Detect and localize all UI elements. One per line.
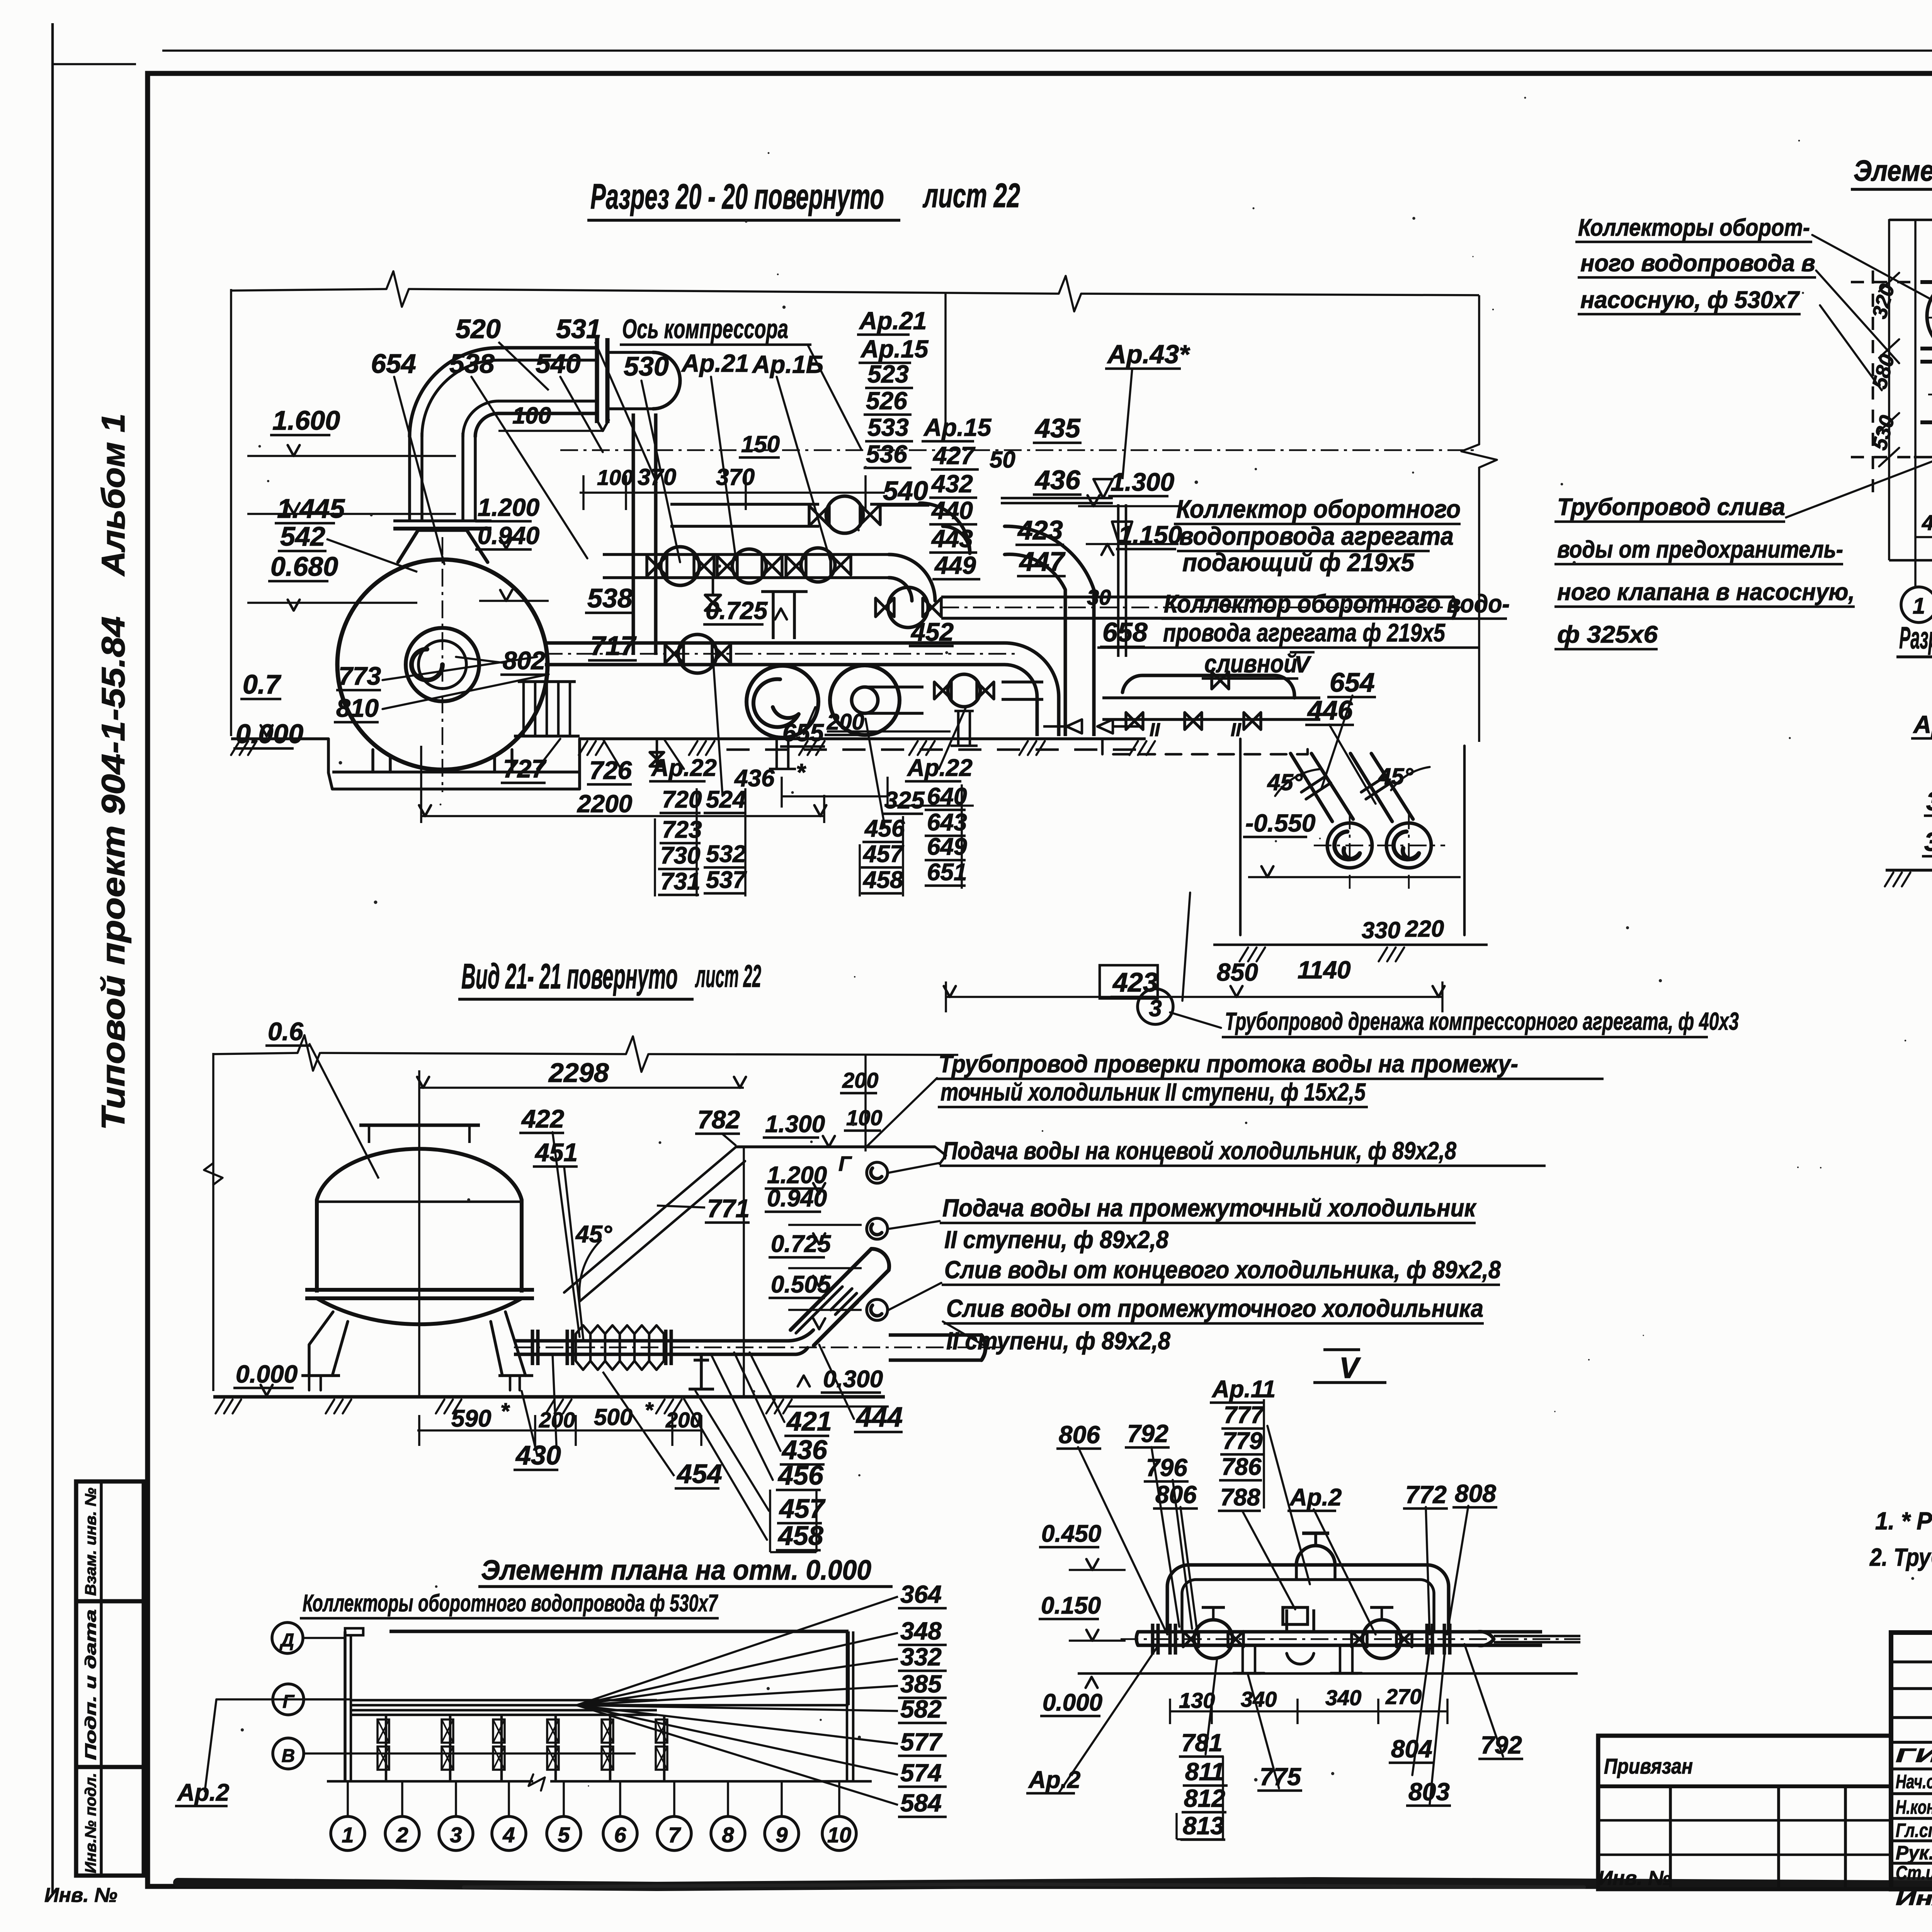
svg-text:812: 812 [1184, 1784, 1225, 1812]
sheet edge line top-left [53, 63, 136, 65]
svg-text:Коллектор оборотного: Коллектор оборотного [1176, 495, 1461, 523]
vessel waterline [317, 1201, 522, 1203]
inclined pipe top cap [871, 1249, 889, 1270]
svg-text:526: 526 [866, 387, 907, 415]
row1 right elbow [920, 503, 970, 553]
svg-text:0.000: 0.000 [236, 1360, 298, 1388]
break mark right envelope [1461, 444, 1497, 468]
svg-text:10: 10 [827, 1823, 851, 1847]
tank big circle [337, 560, 548, 770]
column lines and hatched pads [385, 1715, 388, 1781]
plan top pipe line [389, 1630, 849, 1633]
svg-text:Разрез 27-27 повернуто: Разрез 27-27 повернуто [1899, 621, 1932, 655]
svg-text:Ар.2: Ар.2 [177, 1779, 229, 1806]
svg-text:1.200: 1.200 [767, 1162, 827, 1189]
svg-text:-0.550: -0.550 [1245, 809, 1315, 837]
drain inclined pipe 2 45deg [1350, 753, 1413, 821]
svg-text:1.445: 1.445 [277, 493, 345, 524]
svg-text:45°: 45° [1267, 769, 1303, 795]
pump circle 2 [830, 665, 900, 735]
svg-text:0.6: 0.6 [268, 1017, 304, 1046]
title block outer [1891, 1633, 1932, 1889]
45 deg arc mark v21 [579, 1240, 601, 1298]
circled 1 [1901, 587, 1932, 622]
svg-text:804: 804 [1391, 1735, 1432, 1763]
svg-text:Коллекторы оборотного водопр: Коллекторы оборотного водопровода ф 530х… [303, 1590, 718, 1617]
envelope break mark left [386, 271, 409, 307]
vertical twin pipe to lower manifold [632, 413, 635, 655]
plan2 dashed wall opening [1872, 270, 1874, 498]
thin vertical pipe with funnel [1117, 504, 1120, 657]
lower right vertical pipe [1036, 697, 1039, 736]
svg-text:456: 456 [777, 1460, 824, 1490]
hatch pit drain [1240, 947, 1404, 961]
support stands V [1233, 1645, 1264, 1673]
svg-text:806: 806 [1059, 1421, 1100, 1449]
arc marks 45 [1275, 769, 1321, 796]
svg-text:4: 4 [502, 1823, 515, 1847]
svg-text:Нач.отд.: Нач.отд. [1896, 1771, 1932, 1793]
plan2 bottom step [1914, 456, 1932, 459]
svg-text:*: * [796, 759, 806, 786]
valve V2 row2 [717, 556, 737, 576]
svg-text:Подача воды на промежуточны: Подача воды на промежуточный холодильник [942, 1194, 1477, 1222]
svg-text:II ступени, ф 89х2,8: II ступени, ф 89х2,8 [946, 1327, 1170, 1355]
svg-text:0.000: 0.000 [1043, 1689, 1102, 1716]
svg-text:523: 523 [867, 360, 909, 388]
svg-text:1: 1 [1913, 594, 1925, 619]
svg-text:6: 6 [614, 1823, 626, 1847]
svg-text:364: 364 [900, 1580, 942, 1608]
svg-text:531: 531 [556, 314, 601, 344]
leader 654 446 [1321, 696, 1376, 804]
svg-text:813: 813 [1183, 1812, 1224, 1840]
svg-text:730: 730 [660, 842, 700, 869]
svg-text:400: 400 [1922, 510, 1932, 535]
svg-text:1.300: 1.300 [765, 1111, 825, 1138]
scan speckles [1798, 140, 1800, 142]
svg-text:436: 436 [1034, 465, 1081, 495]
plan2 pipe band1 [1920, 280, 1932, 284]
svg-text:насосную, ф 530х7: насосную, ф 530х7 [1580, 287, 1800, 313]
svg-text:808: 808 [1455, 1480, 1496, 1507]
svg-text:542: 542 [280, 521, 325, 551]
svg-text:540: 540 [883, 476, 928, 506]
fan leader lines to right labels [577, 1597, 898, 1705]
svg-text:0.940: 0.940 [767, 1185, 827, 1212]
ground line s20 [231, 737, 328, 740]
elev arrow 0.000 s20 [261, 725, 273, 736]
svg-text:V: V [1339, 1352, 1361, 1384]
svg-text:358: 358 [1926, 787, 1932, 816]
foundation pad tank [332, 770, 580, 774]
svg-text:лист 22: лист 22 [695, 959, 761, 994]
svg-text:850: 850 [1217, 958, 1258, 986]
envelope right vertical [1478, 295, 1480, 444]
svg-text:440: 440 [931, 497, 973, 524]
svg-text:421: 421 [786, 1406, 832, 1436]
row circle Д [272, 1622, 303, 1653]
svg-text:Трубопровод дренажа компресс: Трубопровод дренажа компрессорного агрег… [1225, 1007, 1739, 1035]
leader to drain text [1170, 893, 1221, 1028]
valve circle 2 V [1362, 1620, 1401, 1658]
leader fan bottom labels [537, 657, 966, 827]
vessel feet [301, 1374, 340, 1377]
svg-text:ф 325х6: ф 325х6 [1557, 621, 1658, 648]
leader Ар.2 plan [205, 1699, 345, 1791]
svg-text:0.725: 0.725 [771, 1231, 832, 1257]
thin pipe 771 45deg [564, 1147, 745, 1301]
plan2 pipe band2 [1920, 360, 1932, 364]
right cap V [1478, 1631, 1494, 1645]
horizontal end pipe with cap v21 [889, 1333, 981, 1337]
leader 520 [498, 342, 549, 390]
svg-text:ного клапана в насосную,: ного клапана в насосную, [1557, 579, 1855, 605]
svg-text:520: 520 [456, 314, 501, 344]
boxes 456-458 v21 [769, 1490, 771, 1552]
plan bottom line [327, 1780, 533, 1783]
svg-text:458: 458 [862, 867, 903, 893]
vessel legs [309, 1312, 526, 1376]
svg-text:792: 792 [1481, 1731, 1522, 1759]
bottom smear line thick [178, 1880, 1932, 1886]
svg-text:786: 786 [1221, 1454, 1262, 1480]
svg-text:0.680: 0.680 [270, 551, 338, 582]
tank top cone [398, 530, 488, 562]
svg-text:130: 130 [1179, 1688, 1215, 1713]
svg-text:532: 532 [706, 841, 746, 867]
svg-text:2: 2 [396, 1823, 408, 1847]
svg-text:Элемент плана на отм. 0.000: Элемент плана на отм. 0.000 [481, 1555, 871, 1586]
inclined pipe 444 [791, 1249, 889, 1345]
svg-text:574: 574 [900, 1759, 942, 1787]
svg-text:1: 1 [342, 1823, 354, 1847]
svg-text:772: 772 [1405, 1481, 1447, 1509]
svg-text:Д: Д [279, 1630, 294, 1651]
svg-text:427: 427 [932, 442, 976, 469]
svg-text:Гл.спец.: Гл.спец. [1896, 1820, 1932, 1841]
svg-text:II ступени, ф 89х2,8: II ступени, ф 89х2,8 [944, 1226, 1168, 1253]
elev arrow 0.680 [288, 600, 300, 611]
svg-text:1.200: 1.200 [478, 493, 539, 521]
svg-text:Ар.43*: Ар.43* [1107, 340, 1190, 369]
svg-text:2200: 2200 [577, 790, 632, 818]
upper pipe flange [595, 338, 599, 423]
svg-text:лист 22: лист 22 [922, 176, 1020, 214]
thin pipe Ар.43 with valve [1001, 497, 1113, 500]
sheet edge line left [51, 23, 54, 1893]
upper pipe continuation and cap [607, 351, 653, 354]
drain outlet curl circles [1327, 823, 1372, 868]
plan2 left dim vertical [1888, 219, 1890, 560]
svg-text:582: 582 [900, 1695, 942, 1723]
svg-text:0.7: 0.7 [243, 669, 281, 699]
svg-text:773: 773 [338, 662, 381, 690]
svg-text:654: 654 [371, 349, 416, 379]
svg-text:провода агрегата ф 219х5: провода агрегата ф 219х5 [1163, 618, 1446, 647]
pipe elbow to inclined v21 [734, 1330, 813, 1341]
svg-text:точный холодильник II ступен: точный холодильник II ступени, ф 15х2,5 [940, 1078, 1366, 1106]
svg-text:Коллекторы оборот-: Коллекторы оборот- [1578, 214, 1810, 241]
elev arrow 1.600 [288, 445, 300, 456]
svg-text:Ар.21: Ар.21 [859, 307, 927, 335]
small fitting symbols right of pump [1066, 719, 1082, 733]
svg-text:590: 590 [451, 1405, 491, 1432]
V loop pipe outer [1167, 1565, 1449, 1631]
inclined pipe flanges [831, 1289, 857, 1315]
svg-text:782: 782 [697, 1105, 740, 1134]
svg-text:Типовой проект 904-1-55.84: Типовой проект 904-1-55.84 [95, 616, 131, 1130]
signature row lines [1891, 1767, 1932, 1770]
svg-text:0.150: 0.150 [1041, 1592, 1101, 1619]
valve V1 row2 [647, 556, 667, 576]
svg-text:Ар.1Б: Ар.1Б [752, 350, 823, 378]
svg-text:Ар.15: Ар.15 [860, 335, 929, 363]
leaders from v21 texts [866, 1078, 989, 1349]
left end fitting V [1136, 1632, 1138, 1645]
box lines around stacks 720-731 [696, 788, 698, 896]
svg-text:781: 781 [1181, 1729, 1223, 1757]
plan2 grid vertical [1914, 220, 1917, 587]
svg-text:533: 533 [867, 413, 909, 441]
flange pair 2 v21 [664, 1330, 668, 1365]
tank inner spiral [406, 628, 479, 701]
svg-text:731: 731 [660, 868, 700, 895]
svg-text:Трубопровод проверки протока: Трубопровод проверки протока воды на про… [939, 1050, 1518, 1078]
svg-text:Инв. №: Инв. № [44, 1884, 117, 1906]
svg-text:*: * [645, 1398, 654, 1422]
dimension envelope top line [231, 289, 386, 291]
svg-text:Ар.15: Ар.15 [923, 413, 992, 441]
thin pipe at elevation 1.300 [736, 1145, 935, 1148]
bypass lower line valves [1126, 713, 1143, 730]
svg-text:792: 792 [1127, 1420, 1168, 1447]
box stack 777-788 [1263, 1399, 1265, 1509]
ground hatch s20 [231, 741, 257, 755]
V loop pipe inner [1182, 1580, 1434, 1631]
svg-text:423: 423 [1112, 967, 1158, 997]
pump outlet pipe right [1002, 680, 1043, 684]
svg-text:385: 385 [900, 1670, 942, 1698]
svg-text:2. Трубопроводы дренажа: 2. Трубопроводы дренажа проложить по мес… [1869, 1543, 1932, 1571]
plan top right corner down [847, 1631, 850, 1705]
support stand right [954, 710, 974, 713]
svg-text:Привязан: Привязан [1604, 1754, 1693, 1778]
leader bundle from top labels [394, 377, 831, 564]
arrow 0.940 [500, 590, 512, 601]
drain pipe 1 flange [1301, 776, 1331, 799]
svg-text:II: II [1231, 720, 1242, 740]
svg-text:Инв.№ подл.: Инв.№ подл. [82, 1773, 99, 1873]
valve top row1 [826, 496, 863, 533]
row line Д [303, 1637, 345, 1639]
row2 right elbow down [889, 554, 935, 601]
centerline ось компрессора [560, 449, 1479, 451]
svg-text:332: 332 [1924, 827, 1932, 857]
svg-text:446: 446 [1307, 695, 1353, 725]
svg-text:*: * [500, 1399, 510, 1424]
plan2 top boundary [1889, 219, 1932, 221]
svg-text:Ось компрессора: Ось компрессора [622, 314, 788, 344]
valve V3 row2 [786, 556, 806, 576]
upper pipe bundle horizontal [498, 346, 597, 350]
envelope left vertical [230, 289, 232, 736]
vessel bottom dish [317, 1298, 522, 1324]
plan break mark bottom [529, 1774, 545, 1791]
svg-text:Н.контр.: Н.контр. [1896, 1796, 1932, 1818]
vessel body sides [315, 1200, 319, 1293]
arrow 0.725 [775, 609, 787, 619]
svg-text:1.300: 1.300 [1111, 468, 1174, 496]
svg-text:Г: Г [838, 1152, 852, 1175]
svg-text:771: 771 [707, 1194, 750, 1223]
pipe support stand v21 [700, 1354, 703, 1389]
row circle Г [273, 1684, 304, 1715]
svg-text:538: 538 [587, 583, 633, 613]
svg-text:536: 536 [866, 440, 907, 468]
svg-text:Подп. и дата: Подп. и дата [82, 1609, 99, 1760]
svg-text:457: 457 [779, 1493, 826, 1524]
circled 3 [1138, 989, 1173, 1024]
envelope v21 top line [213, 1053, 298, 1054]
svg-text:779: 779 [1223, 1428, 1263, 1454]
envelope v21 left vertical [212, 1053, 214, 1391]
leader 782 [723, 1134, 736, 1146]
svg-text:270: 270 [1385, 1684, 1422, 1709]
vertical big riser to bypass [1064, 590, 1067, 736]
flange pair right V [1425, 1624, 1429, 1655]
leader fan v21 labels [684, 1345, 854, 1540]
svg-text:150: 150 [741, 431, 780, 457]
plan top band wall stub [345, 1628, 363, 1635]
svg-text:444: 444 [855, 1402, 903, 1433]
row3 valve assembly [876, 598, 894, 617]
leaders left text plan2 [1812, 235, 1932, 390]
tank upper elbow outer [410, 348, 498, 437]
box line 640-651 [961, 784, 963, 889]
tee with actuator V [1285, 1609, 1288, 1632]
svg-text:Подача воды на концевой хо: Подача воды на концевой холодильник, ф 8… [942, 1137, 1456, 1165]
ground hatch s27 [1885, 872, 1910, 886]
svg-text:ГИП: ГИП [1896, 1745, 1932, 1766]
svg-text:Ар.11: Ар.11 [1211, 1376, 1276, 1403]
leader 802 810 [383, 657, 549, 709]
leader left text2 [1785, 448, 1932, 518]
row circle В [273, 1738, 304, 1769]
drain pipe 2 flange [1361, 776, 1391, 799]
svg-text:654: 654 [1330, 667, 1375, 697]
svg-text:370: 370 [716, 464, 755, 490]
ground line s27 [1886, 869, 1932, 872]
svg-text:Слив воды от промежуточного: Слив воды от промежуточного холодильника [946, 1294, 1483, 1322]
bypass below-ground dashed return [1102, 739, 1308, 754]
ground line v21 [213, 1395, 885, 1399]
svg-text:сливной: сливной [1204, 649, 1297, 678]
boxes 811-813 [1222, 1756, 1224, 1839]
привязан table grid [1669, 1786, 1672, 1889]
diag drain pipe to concevoy [796, 1287, 858, 1345]
svg-text:220: 220 [1405, 916, 1444, 942]
svg-text:449: 449 [934, 551, 976, 579]
leader 531 [595, 342, 657, 483]
svg-text:447: 447 [1019, 546, 1066, 577]
plan2 bottom boundary [1889, 559, 1932, 562]
pit outline drain [1240, 739, 1464, 935]
arrow 1.200 [500, 538, 512, 549]
pump circle 1 [747, 666, 818, 738]
svg-text:200: 200 [827, 709, 864, 735]
svg-text:Ст.инж.: Ст.инж. [1896, 1862, 1932, 1884]
svg-text:100: 100 [512, 403, 551, 429]
svg-text:3: 3 [450, 1823, 462, 1847]
svg-text:348: 348 [900, 1617, 942, 1645]
leader 771 [657, 1206, 705, 1207]
dim 436* line [782, 795, 888, 798]
vessel support ring [305, 1288, 534, 1292]
svg-text:8: 8 [722, 1823, 734, 1847]
vessel dome [317, 1149, 522, 1200]
leader Ар.43 [1122, 369, 1132, 479]
svg-text:330: 330 [1362, 917, 1400, 943]
manifold row2 pipe [603, 553, 889, 556]
svg-text:788: 788 [1220, 1484, 1260, 1511]
svg-text:775: 775 [1260, 1763, 1301, 1791]
svg-text:Рук.гр.: Рук.гр. [1896, 1842, 1932, 1864]
svg-text:1.600: 1.600 [272, 405, 340, 435]
main bottom run V [1138, 1630, 1542, 1634]
svg-text:332: 332 [900, 1643, 942, 1671]
svg-text:200: 200 [539, 1408, 575, 1432]
bypass loop rounded top [1122, 675, 1294, 698]
foundation pit s20 [328, 739, 580, 789]
dim line V [1170, 1710, 1447, 1713]
svg-text:2298: 2298 [548, 1058, 609, 1088]
envelope mid vertical [944, 294, 947, 425]
valve on top of loop [1296, 1546, 1335, 1565]
svg-text:Разрез 20 - 20 повернуто: Разрез 20 - 20 повернуто [590, 177, 884, 216]
riser top elbows [1005, 526, 1094, 590]
svg-text:658: 658 [1102, 617, 1148, 647]
plan right tall verticals [846, 1631, 849, 1782]
leader 0.6 [309, 1043, 379, 1179]
svg-text:200: 200 [842, 1068, 878, 1092]
leader 422 451 [553, 1132, 583, 1341]
vessel centerline [418, 1132, 420, 1387]
ground hatch v21 [216, 1400, 792, 1413]
svg-text:1140: 1140 [1298, 956, 1351, 984]
numbered column circles 1-10 [331, 1816, 365, 1850]
left stamp table [76, 1481, 144, 1876]
svg-text:0.450: 0.450 [1041, 1520, 1101, 1547]
leader 542 [327, 539, 417, 572]
lower manifold pipe [545, 641, 1005, 645]
elev arrow 1.445 [288, 503, 300, 514]
svg-text:100: 100 [597, 465, 633, 490]
plan G band pipes [351, 1699, 657, 1702]
svg-text:45°: 45° [575, 1221, 612, 1248]
elev arrow 1300 [1088, 495, 1100, 506]
svg-text:1. * Размеры для справок.: 1. * Размеры для справок. [1875, 1507, 1932, 1535]
leader 430 [522, 1354, 556, 1455]
tank legs [373, 750, 512, 772]
tank top flange plate [393, 527, 492, 531]
bypass upper line valve [1212, 672, 1229, 689]
drain inclined pipe 1 45deg [1291, 753, 1353, 821]
svg-text:II: II [1150, 720, 1160, 740]
svg-text:Ар.2: Ар.2 [1289, 1484, 1342, 1511]
outlet pipe from vessel [514, 1339, 734, 1343]
svg-text:Элемент плана на отм. 0.000: Элемент плана на отм. 0.000 для станции … [1854, 155, 1932, 187]
